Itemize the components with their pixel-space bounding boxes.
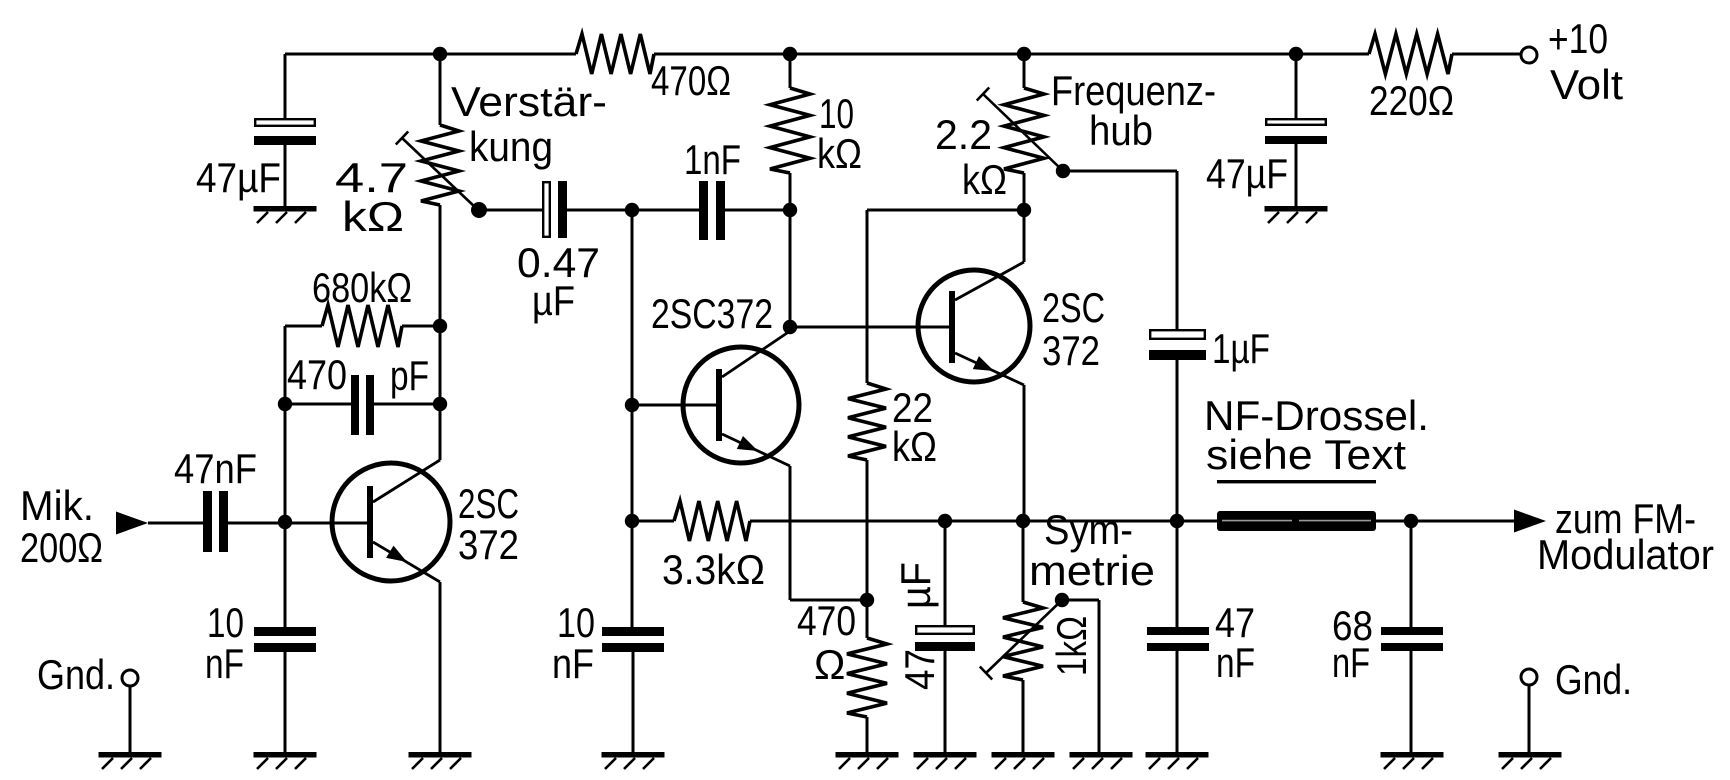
wire Q3 emitter down [1023, 385, 1026, 521]
svg-text:Mik.: Mik. [20, 482, 94, 529]
wire output line [750, 520, 1518, 523]
potentiometer 4.7k Verstaerkung [335, 54, 607, 240]
ground Q1 emitter [409, 752, 472, 769]
capacitor 470pF [285, 351, 440, 435]
node 47uF middle top [938, 514, 952, 528]
svg-text:Gnd.: Gnd. [1555, 656, 1632, 703]
node 3.3k left [625, 514, 639, 528]
node 680k right [433, 319, 447, 333]
capacitor 47nF output [1147, 599, 1255, 752]
svg-text:1kΩ: 1kΩ [1048, 616, 1095, 676]
wire Q2 collector riser [789, 173, 792, 331]
ground 1k wiper [1070, 752, 1133, 769]
svg-text:siehe Text: siehe Text [1206, 431, 1406, 478]
svg-text:nF: nF [1332, 639, 1370, 686]
wire 1nF to node [725, 209, 790, 212]
svg-text:kΩ: kΩ [892, 423, 937, 470]
wire wiper 2.2k to 1uF [1063, 171, 1177, 329]
svg-text:2SC: 2SC [458, 480, 519, 527]
svg-text:kΩ: kΩ [962, 156, 1007, 203]
svg-text:372: 372 [458, 521, 519, 568]
wire Q1 emitter to ground [439, 582, 442, 752]
resistor 10k [770, 54, 862, 177]
inductor NF-Drossel [1204, 392, 1429, 531]
svg-text:hub: hub [1089, 107, 1153, 154]
transistor Q3 2SC372 [918, 262, 1105, 385]
resistor 3.3k [632, 501, 765, 593]
svg-text:47µF: 47µF [1206, 150, 1288, 197]
svg-text:470: 470 [797, 597, 856, 644]
node Q2 collector [783, 320, 797, 334]
svg-text:3.3kΩ: 3.3kΩ [662, 546, 765, 593]
svg-text:µF: µF [892, 562, 939, 609]
svg-text:200Ω: 200Ω [20, 524, 103, 571]
svg-text:2SC: 2SC [1042, 284, 1105, 331]
node NF-Drossel left [1170, 514, 1184, 528]
svg-text:kΩ: kΩ [342, 193, 404, 240]
capacitor 10nF left [205, 599, 316, 752]
svg-text:Modulator: Modulator [1537, 531, 1714, 578]
node wiper 4.7k [471, 202, 487, 218]
ground Gnd left [99, 752, 162, 769]
node rail 47uF right [1289, 47, 1303, 61]
svg-text:10: 10 [557, 599, 595, 646]
svg-text:372: 372 [1042, 327, 1100, 374]
ground 47uF right [1265, 206, 1328, 223]
svg-text:nF: nF [1216, 639, 1255, 686]
node emitter 470 [860, 593, 874, 607]
svg-text:220Ω: 220Ω [1369, 77, 1454, 124]
svg-text:Sym-: Sym- [1044, 506, 1133, 553]
ground under 47uF left [254, 206, 317, 223]
ground 10nF middle [602, 752, 665, 769]
svg-text:Gnd.: Gnd. [37, 651, 115, 698]
node wiper 1k [1055, 593, 1069, 607]
resistor R 470 Ohm supply [576, 34, 731, 104]
node 470pF right [433, 397, 447, 411]
ground 470 emitter [836, 752, 899, 769]
node Q1 base [278, 515, 292, 529]
node Q3 emitter [1016, 514, 1030, 528]
svg-text:2SC372: 2SC372 [651, 290, 773, 337]
node rail 4.7k [433, 47, 447, 61]
svg-text:470Ω: 470Ω [651, 57, 731, 104]
svg-text:+10: +10 [1548, 15, 1608, 62]
wire wiper to coupling cap [479, 209, 542, 212]
svg-text:680kΩ: 680kΩ [312, 264, 412, 311]
svg-text:Volt: Volt [1550, 61, 1623, 108]
resistor R 220 Ohm supply [1369, 34, 1454, 124]
node Q3 collector [1017, 203, 1031, 217]
svg-text:µF: µF [532, 277, 575, 324]
resistor 470 emitter [797, 597, 887, 752]
node rail 2.2k [1017, 47, 1031, 61]
resistor 680k [285, 264, 440, 347]
terminal Gnd right [1521, 656, 1632, 752]
wire Q2 collector to Q3 base [790, 326, 949, 329]
wire Q3 collector riser [1023, 173, 1026, 262]
svg-text:kung: kung [469, 123, 553, 170]
wire 22k top to Q3 collector node [867, 209, 1024, 212]
ground 68nF [1381, 752, 1444, 769]
svg-text:nF: nF [205, 640, 244, 687]
svg-text:metrie: metrie [1029, 547, 1155, 594]
output arrow zum FM-Modulator [1514, 495, 1714, 578]
transistor Q2 2SC372 [651, 290, 799, 466]
node wiper 2.2k [1056, 164, 1070, 178]
wire +10V supply rail [285, 53, 1521, 56]
svg-text:1nF: 1nF [684, 136, 741, 183]
wire 4.7k to Q1 collector [373, 205, 440, 502]
potentiometer 1k Symmetrie [980, 506, 1155, 752]
wire 47nF to Q1 base [228, 522, 367, 525]
svg-text:47µF: 47µF [196, 154, 281, 201]
node Q2 base [625, 398, 639, 412]
terminal +10 Volt [1521, 15, 1623, 108]
wire mid column [631, 210, 634, 627]
capacitor 47uF middle [892, 521, 975, 752]
potentiometer 2.2k Frequenzhub [935, 54, 1216, 203]
wire cap to 1nF [567, 209, 702, 212]
input Mik. 200 Ohm [20, 482, 203, 571]
svg-text:nF: nF [552, 640, 594, 687]
capacitor 10nF middle [552, 599, 664, 752]
svg-text:1µF: 1µF [1212, 325, 1270, 372]
node 10k bottom [783, 203, 797, 217]
ground Gnd right [1499, 752, 1562, 769]
svg-text:470: 470 [287, 351, 347, 398]
node 68nF top [1404, 514, 1418, 528]
terminal Gnd left [37, 651, 138, 752]
capacitor 47nF input [174, 445, 257, 552]
capacitor 47uF left [196, 54, 316, 206]
wire Q1 base column [284, 326, 287, 627]
wire wiper 1k to ground [1062, 600, 1099, 752]
ground 47nF output [1146, 752, 1209, 769]
capacitor 1uF [1149, 325, 1270, 627]
node rail 10k [783, 47, 797, 61]
resistor 22k [848, 210, 937, 638]
transistor Q1 2SC372 [332, 460, 519, 582]
capacitor 68nF [1332, 521, 1443, 752]
svg-text:Verstär-: Verstär- [451, 78, 607, 125]
svg-text:10: 10 [207, 599, 244, 646]
svg-text:2.2: 2.2 [935, 111, 992, 158]
svg-text:47nF: 47nF [174, 445, 257, 492]
svg-text:pF: pF [390, 352, 429, 399]
wire Q2 emitter down [790, 466, 867, 600]
wire Q2 base [632, 404, 716, 407]
capacitor 1nF [684, 136, 741, 240]
capacitor 47uF right [1206, 54, 1327, 206]
capacitor 0.47uF [517, 181, 600, 324]
svg-text:kΩ: kΩ [817, 130, 862, 177]
svg-text:47: 47 [896, 649, 943, 690]
svg-text:Ω: Ω [814, 641, 845, 688]
ground 10nF left [254, 752, 317, 769]
ground 47uF middle [914, 752, 977, 769]
node base line Q2 top [625, 203, 639, 217]
node 470pF left [278, 397, 292, 411]
ground 1k pot [992, 752, 1055, 769]
